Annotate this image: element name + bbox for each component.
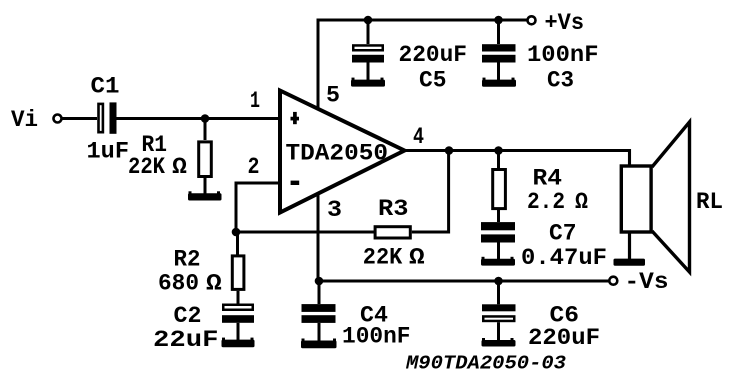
svg-text:100nF: 100nF	[527, 42, 599, 68]
svg-text:Vi: Vi	[11, 107, 38, 133]
svg-text:R3: R3	[378, 196, 409, 222]
svg-text:M90TDA2050-03: M90TDA2050-03	[405, 353, 567, 375]
svg-text:22K: 22K	[363, 244, 403, 270]
svg-text:220uF: 220uF	[528, 325, 600, 351]
capacitor C6	[482, 281, 516, 341]
ground C3	[482, 78, 516, 87]
capacitor C5	[352, 20, 384, 80]
capacitor C7	[481, 222, 515, 259]
svg-text:100nF: 100nF	[342, 324, 411, 350]
wire Vi to C1	[62, 117, 98, 120]
junction output/R4	[494, 146, 503, 155]
junction feedback node	[232, 228, 241, 237]
ground R1	[188, 191, 222, 200]
wire feedback	[236, 151, 449, 233]
resistor R1	[199, 119, 212, 195]
minus input marker	[291, 181, 300, 185]
junction node input/R1	[201, 114, 210, 123]
svg-text:680: 680	[158, 271, 199, 297]
input terminal Vi	[54, 115, 62, 123]
svg-text:Ω: Ω	[172, 154, 187, 180]
svg-text:22uF: 22uF	[153, 327, 219, 353]
svg-text:C5: C5	[419, 67, 447, 93]
junction rail/C6	[494, 277, 503, 286]
capacitor C1	[99, 102, 117, 133]
wire C1 to op-amp pin 1	[117, 117, 281, 120]
ground C5	[351, 78, 385, 87]
ground C2	[222, 338, 255, 348]
wire pin 5 to +Vs rail	[318, 20, 528, 110]
svg-text:-Vs: -Vs	[625, 269, 669, 295]
svg-text:C3: C3	[547, 67, 574, 93]
resistor R4	[493, 151, 506, 223]
power terminal +Vs	[528, 16, 536, 24]
svg-text:2.2: 2.2	[527, 189, 565, 215]
junction output/feedback	[445, 146, 454, 155]
svg-text:2: 2	[248, 154, 260, 180]
speaker RL	[621, 122, 689, 272]
svg-text:Ω: Ω	[575, 189, 588, 215]
ground C4	[301, 339, 337, 349]
svg-text:C1: C1	[91, 74, 120, 100]
svg-text:Ω: Ω	[206, 271, 222, 297]
wire pin 2	[236, 183, 280, 232]
svg-text:R4: R4	[533, 166, 563, 192]
svg-text:Ω: Ω	[409, 244, 425, 270]
svg-text:C7: C7	[549, 221, 577, 247]
svg-text:1: 1	[250, 88, 260, 114]
svg-text:TDA2050: TDA2050	[286, 141, 389, 167]
svg-text:+Vs: +Vs	[545, 10, 585, 36]
wire pin 3 to -Vs rail	[318, 193, 610, 281]
ground speaker	[614, 259, 646, 266]
ground C7	[481, 257, 515, 266]
svg-text:RL: RL	[696, 189, 723, 215]
capacitor C3	[482, 20, 516, 80]
resistor R2	[232, 232, 244, 304]
capacitor C4	[302, 281, 336, 341]
plus input marker	[291, 112, 300, 124]
svg-text:R2: R2	[174, 247, 201, 273]
resistor R3	[375, 227, 410, 238]
junction rail/C5	[364, 16, 373, 25]
svg-text:3: 3	[327, 197, 342, 223]
junction rail/C4	[315, 277, 324, 286]
svg-text:22K: 22K	[128, 154, 165, 180]
capacitor C2	[222, 305, 254, 340]
power terminal -Vs	[609, 277, 617, 285]
wire output pin 4 to speaker	[403, 151, 630, 166]
svg-text:220uF: 220uF	[399, 42, 468, 68]
svg-text:0.47uF: 0.47uF	[521, 245, 607, 271]
svg-text:4: 4	[413, 124, 424, 150]
svg-text:C2: C2	[174, 303, 202, 329]
svg-text:1uF: 1uF	[87, 139, 130, 165]
ground C6	[482, 338, 516, 347]
svg-text:5: 5	[326, 83, 340, 109]
junction rail/C3	[494, 16, 503, 25]
op-amp U1 TDA2050	[280, 91, 405, 213]
